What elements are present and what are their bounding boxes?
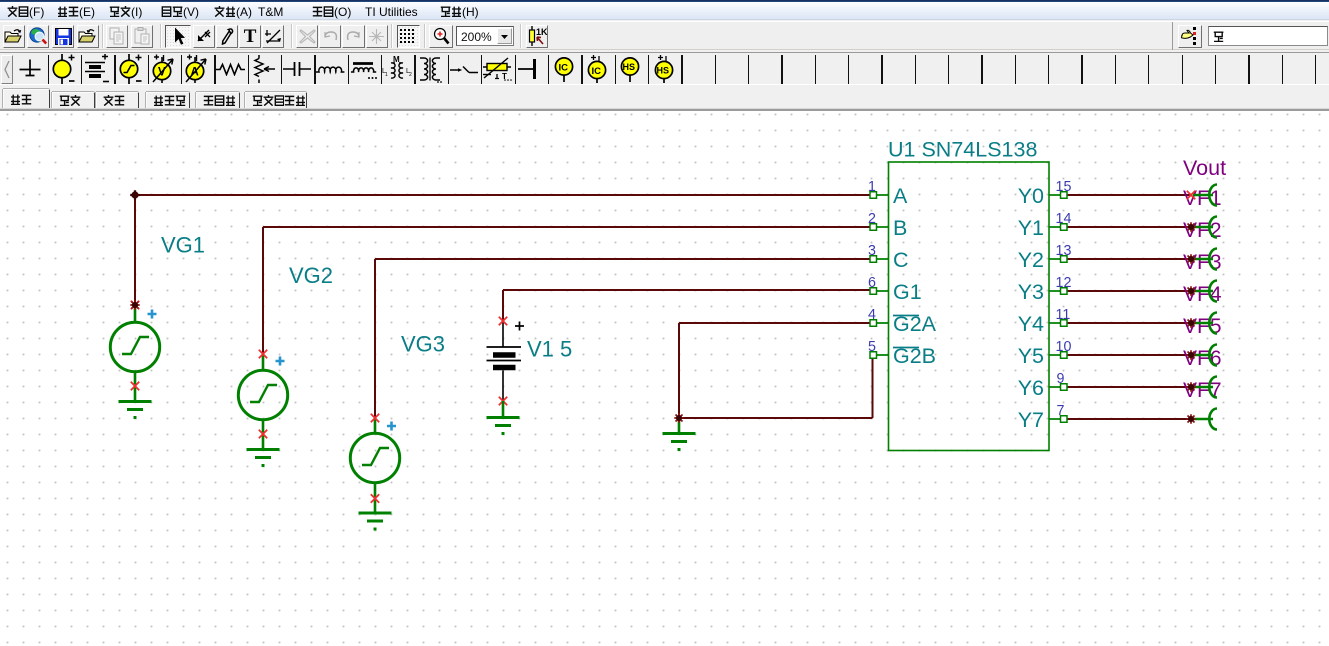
battery terminal marks xyxy=(499,317,507,405)
paste button (disabled) xyxy=(131,25,153,48)
IC U1 box xyxy=(889,162,1050,451)
probe VF2 xyxy=(1186,217,1217,238)
svg-text:IC: IC xyxy=(558,63,568,74)
component cell: voltage source xyxy=(48,55,80,85)
redo button (disabled) xyxy=(342,25,364,48)
svg-text:B: B xyxy=(893,216,907,240)
component cell: voltmeter xyxy=(148,55,180,85)
grid toggle button (pressed) xyxy=(397,25,421,48)
svg-text:Y5: Y5 xyxy=(1018,344,1044,368)
component cell: HS plus xyxy=(648,55,680,85)
zoom combo box xyxy=(456,26,514,46)
labels VF1-VF7 xyxy=(1183,187,1222,402)
svg-text:Y2: Y2 xyxy=(1018,248,1044,272)
copy button (disabled) xyxy=(106,25,128,48)
ground of VG3 xyxy=(359,513,392,531)
component cell: terminal xyxy=(514,55,546,85)
tab 仪表 xyxy=(96,92,139,108)
component cell: potentiometer xyxy=(248,55,280,85)
wire Y3 out xyxy=(1067,290,1190,292)
svg-text:5: 5 xyxy=(868,339,876,355)
ground of VG2 xyxy=(247,450,280,468)
pin squares left xyxy=(870,192,877,359)
svg-text:Vout: Vout xyxy=(1183,156,1226,180)
svg-text:Y6: Y6 xyxy=(1018,376,1044,400)
junction VG1 top xyxy=(130,300,139,309)
svg-text:V1 5: V1 5 xyxy=(527,337,572,362)
menu 帮助(H) xyxy=(440,5,479,19)
svg-text:15: 15 xyxy=(1056,179,1072,195)
svg-text:2: 2 xyxy=(409,72,412,78)
wire net G1 from V1 xyxy=(503,290,870,321)
component cell: voltage generator xyxy=(114,55,146,85)
svg-text:Y7: Y7 xyxy=(1018,408,1044,432)
probe VF7 xyxy=(1186,377,1217,398)
wire Y1 out xyxy=(1067,226,1190,228)
svg-text:9: 9 xyxy=(1057,371,1065,387)
component cell: inductor with core xyxy=(348,55,380,85)
pin numbers left xyxy=(868,179,876,355)
svg-text:10: 10 xyxy=(1056,339,1072,355)
open file button xyxy=(3,25,25,48)
svg-text:1: 1 xyxy=(868,179,876,195)
generator VG2 xyxy=(238,350,287,450)
probe VF5 xyxy=(1186,313,1217,334)
svg-text:VG2: VG2 xyxy=(289,263,333,288)
probe Y7 out xyxy=(1186,409,1217,430)
svg-text:2: 2 xyxy=(868,211,876,227)
svg-text:IC: IC xyxy=(591,66,601,77)
ground of VG1 xyxy=(119,402,152,420)
junction G2 net xyxy=(674,413,683,422)
wire VG1 vertical xyxy=(134,195,136,305)
menu 视图(V) xyxy=(161,5,199,19)
probe VF3 xyxy=(1186,249,1217,270)
svg-text:HS: HS xyxy=(623,62,636,72)
wire Y5 out xyxy=(1067,354,1190,356)
component cell: IC plus xyxy=(581,55,613,85)
component cell: capacitor xyxy=(281,55,313,85)
component cell: coupled inductors xyxy=(381,55,413,85)
svg-text:4: 4 xyxy=(868,307,876,323)
battery V1 xyxy=(487,321,525,401)
generator VG1 xyxy=(110,307,159,403)
probe VF1 xyxy=(1187,185,1217,206)
svg-text:HS: HS xyxy=(656,66,669,76)
wire Y6 out xyxy=(1067,386,1190,388)
svg-text:1K: 1K xyxy=(536,27,547,37)
svg-text:Y3: Y3 xyxy=(1018,280,1044,304)
pin names left xyxy=(893,184,937,368)
text tool button xyxy=(239,25,261,48)
find component button xyxy=(1178,25,1201,48)
toolbar separator xyxy=(1172,22,1173,50)
component cell: ground xyxy=(14,55,46,85)
wire net G2A xyxy=(679,323,870,418)
svg-text:C: C xyxy=(893,248,909,272)
tab 开关 xyxy=(52,92,95,108)
delete button (disabled) xyxy=(296,25,318,48)
wire Y4 out xyxy=(1067,322,1190,324)
component cell: IC xyxy=(548,55,580,85)
component cell: inductor xyxy=(314,55,346,85)
svg-text:14: 14 xyxy=(1056,211,1072,227)
menu 编辑(E) xyxy=(57,5,95,19)
component cell: transformer xyxy=(414,55,446,85)
junction node A xyxy=(130,190,140,200)
tab 制造商模型 xyxy=(245,92,307,108)
probe VF6 xyxy=(1186,345,1217,366)
wire net C xyxy=(375,259,870,418)
component cell: resistor xyxy=(214,55,246,85)
select arrow button (pressed) xyxy=(165,25,191,48)
wire net B xyxy=(263,227,870,354)
svg-text:Y1: Y1 xyxy=(1018,216,1044,240)
svg-text:U1 SN74LS138: U1 SN74LS138 xyxy=(888,138,1037,162)
overline G2B xyxy=(893,347,919,349)
scroll-left button xyxy=(1,55,13,85)
svg-text:Y0: Y0 xyxy=(1018,184,1044,208)
svg-text:VG1: VG1 xyxy=(161,233,205,258)
ground of V1 xyxy=(487,401,520,435)
revert/open recent button xyxy=(77,25,99,48)
svg-text:Y4: Y4 xyxy=(1018,312,1044,336)
zoom button xyxy=(429,25,453,48)
svg-text:A: A xyxy=(893,184,908,208)
component value (1K) button xyxy=(526,25,548,48)
probe VF4 xyxy=(1186,281,1217,302)
center button (disabled) xyxy=(366,25,388,48)
pin squares right xyxy=(1061,192,1068,423)
pencil/draw button xyxy=(216,25,238,48)
tab 半导体 xyxy=(196,92,240,108)
svg-text:VG3: VG3 xyxy=(401,332,445,357)
ground mid (G2 net) xyxy=(663,418,696,451)
pin names right xyxy=(1018,184,1044,432)
overline G2A xyxy=(893,315,919,317)
pin numbers right xyxy=(1056,179,1072,419)
generator VG3 xyxy=(350,414,399,513)
menu 插入(I) xyxy=(109,5,142,19)
svg-text:7: 7 xyxy=(1057,403,1065,419)
diagram tool button xyxy=(262,25,284,48)
component cell: trimmer xyxy=(481,55,513,85)
last component button xyxy=(193,25,215,48)
wire net G2B xyxy=(679,358,873,418)
menu 工具(O) xyxy=(312,5,351,19)
svg-text:G1: G1 xyxy=(893,280,922,304)
svg-text:6: 6 xyxy=(868,275,876,291)
pin stubs right xyxy=(1049,195,1061,419)
component cell: battery xyxy=(81,55,113,85)
wire net A horizontal xyxy=(135,195,1190,419)
svg-text:3: 3 xyxy=(868,243,876,259)
wire Y2 out xyxy=(1067,258,1190,260)
menu 文件(F) xyxy=(7,5,44,19)
svg-text:1: 1 xyxy=(385,72,388,78)
tab 基本 (selected) xyxy=(3,89,50,108)
wire Y0 out xyxy=(1067,194,1190,196)
tab 发生源 xyxy=(146,92,190,108)
pin stubs left xyxy=(877,195,889,355)
wire Y7 out xyxy=(1067,418,1190,420)
svg-text:12: 12 xyxy=(1056,275,1072,291)
component cell: switch xyxy=(448,55,480,85)
undo button (disabled) xyxy=(319,25,341,48)
search field with 地 xyxy=(1208,26,1328,46)
component cell: ammeter xyxy=(181,55,213,85)
component cell: HS xyxy=(614,55,646,85)
open from web button xyxy=(27,25,49,48)
svg-text:13: 13 xyxy=(1056,243,1072,259)
svg-text:11: 11 xyxy=(1056,307,1071,323)
save button xyxy=(52,25,74,48)
menu 分析(A) xyxy=(214,5,252,19)
